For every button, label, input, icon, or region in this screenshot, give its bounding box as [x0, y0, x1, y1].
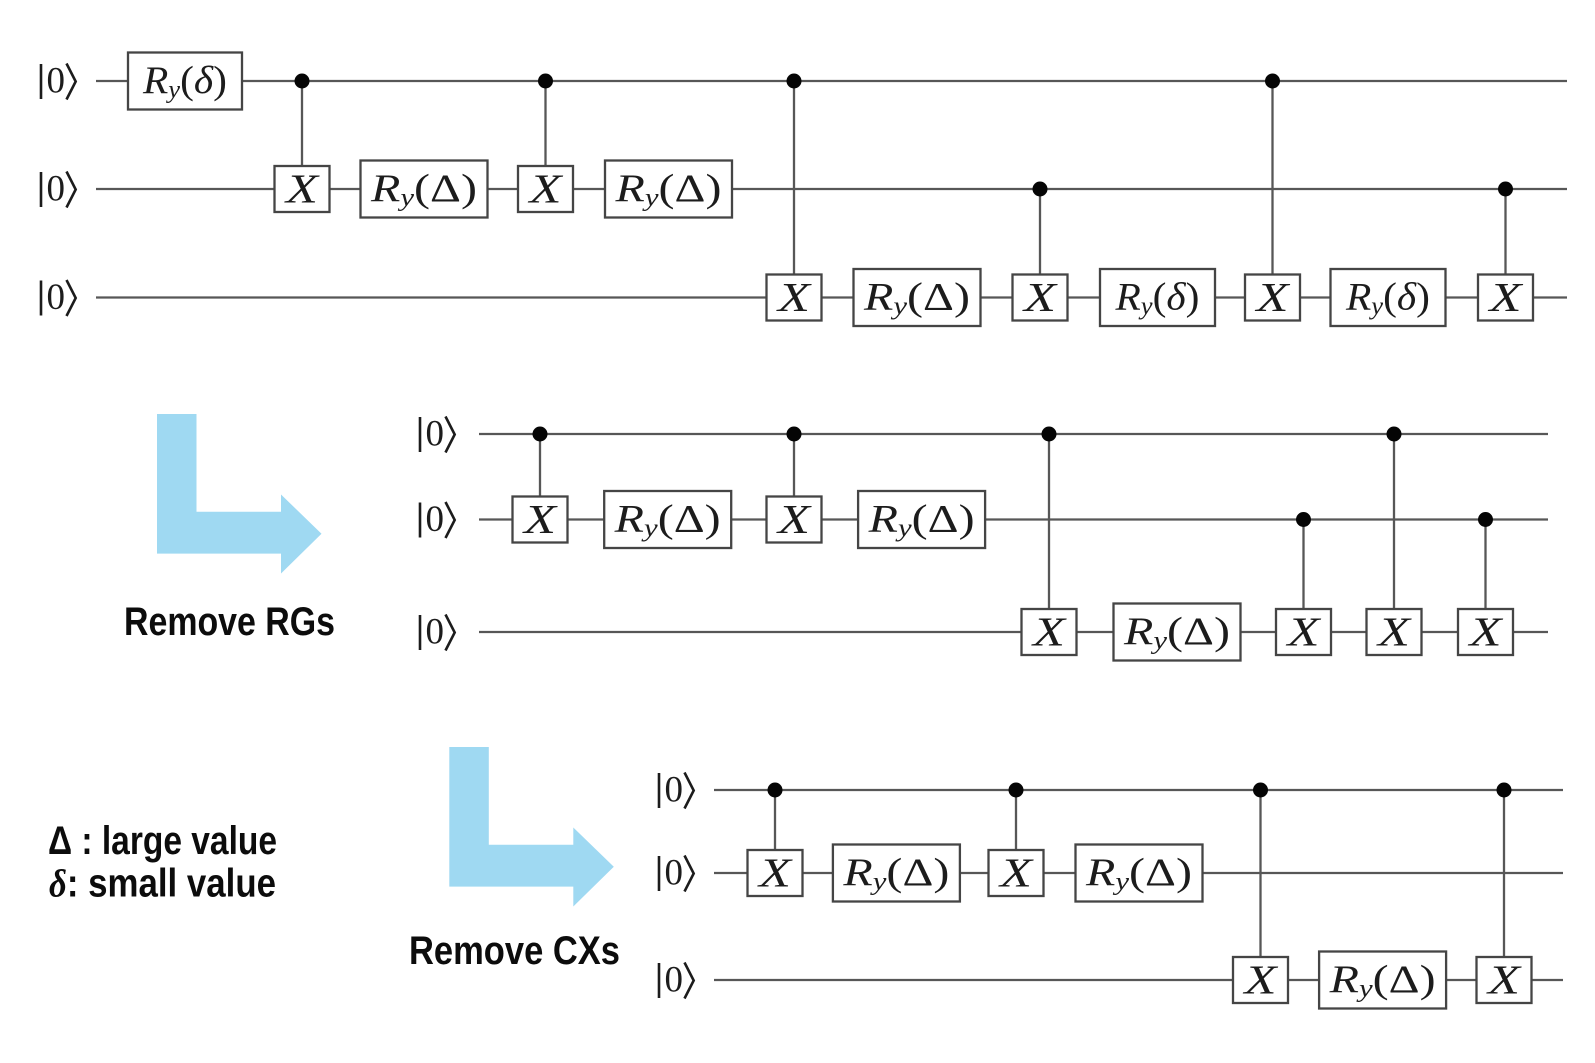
svg-text:Ry(Δ): Ry(Δ) [614, 167, 721, 212]
svg-text:X: X [521, 496, 558, 542]
svg-text:X: X [1242, 957, 1279, 1003]
svg-text:Ry(Δ): Ry(Δ) [867, 498, 974, 543]
svg-text:X: X [1030, 609, 1067, 655]
svg-text:Ry(δ): Ry(δ) [1345, 276, 1430, 321]
svg-text:X: X [1254, 274, 1291, 320]
svg-text:δ: small value: δ: small value [49, 862, 276, 906]
svg-text:X: X [1467, 609, 1504, 655]
svg-text:X: X [1485, 957, 1522, 1003]
svg-text:Δ : large value: Δ : large value [48, 819, 277, 863]
svg-text:Ry(Δ): Ry(Δ) [842, 851, 949, 896]
svg-text:X: X [527, 166, 564, 212]
svg-text:Ry(Δ): Ry(Δ) [613, 498, 720, 543]
svg-text:Ry(Δ): Ry(Δ) [1085, 851, 1192, 896]
svg-text:0: 0 [46, 60, 65, 101]
svg-text:0: 0 [425, 499, 444, 540]
svg-text:X: X [997, 850, 1034, 896]
svg-text:X: X [775, 274, 812, 320]
svg-text:Remove CXs: Remove CXs [409, 929, 620, 973]
svg-text:0: 0 [425, 413, 444, 454]
svg-text:X: X [775, 496, 812, 542]
svg-text:X: X [756, 850, 793, 896]
svg-text:X: X [1285, 609, 1322, 655]
svg-text:0: 0 [46, 168, 65, 209]
svg-text:Ry(Δ): Ry(Δ) [863, 276, 970, 321]
svg-text:0: 0 [664, 852, 683, 893]
svg-text:Ry(Δ): Ry(Δ) [370, 167, 477, 212]
svg-text:Ry(δ): Ry(δ) [1114, 276, 1199, 321]
svg-text:0: 0 [664, 959, 683, 1000]
svg-text:Ry(Δ): Ry(Δ) [1123, 610, 1230, 655]
svg-text:X: X [1021, 274, 1058, 320]
svg-text:0: 0 [425, 611, 444, 652]
svg-text:0: 0 [664, 769, 683, 810]
svg-text:X: X [1487, 274, 1524, 320]
svg-text:0: 0 [46, 277, 65, 318]
svg-text:X: X [283, 166, 320, 212]
svg-text:Ry(Δ): Ry(Δ) [1328, 958, 1435, 1003]
svg-text:Remove RGs: Remove RGs [124, 600, 335, 644]
svg-text:X: X [1375, 609, 1412, 655]
svg-text:Ry(δ): Ry(δ) [142, 59, 227, 104]
